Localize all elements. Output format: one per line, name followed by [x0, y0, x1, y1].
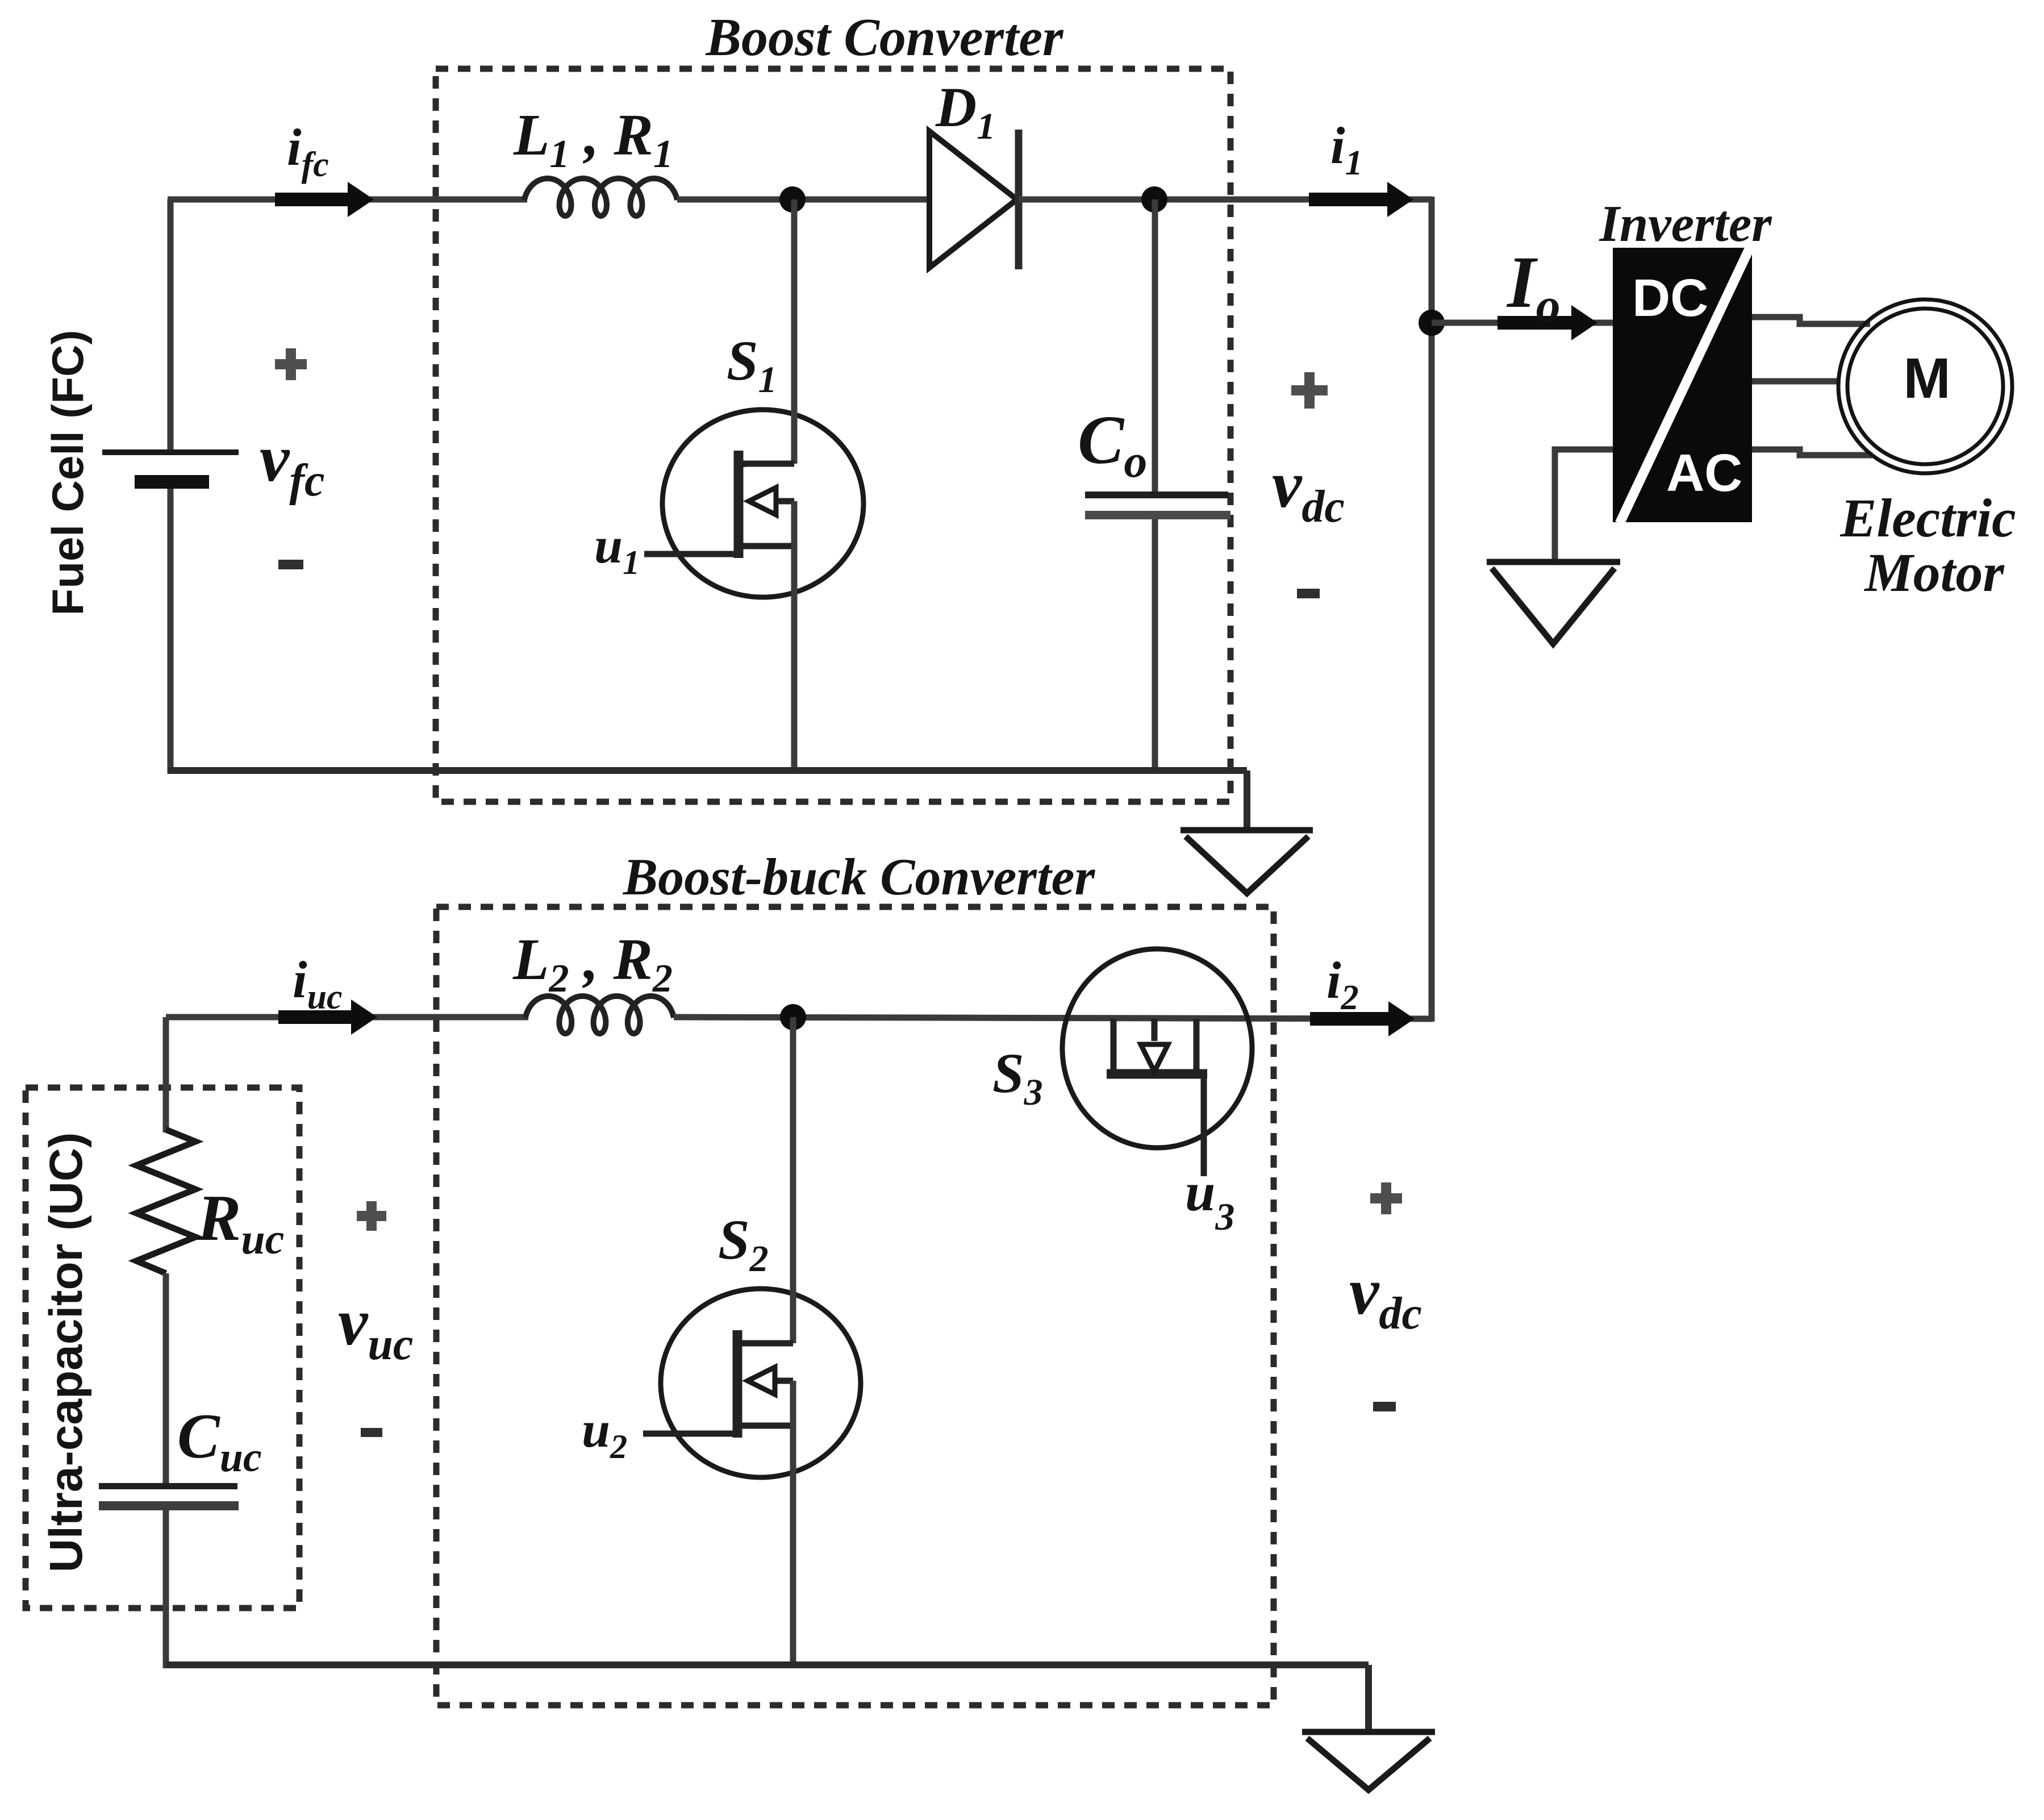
wire: Ruc to Cuc — [163, 1273, 169, 1488]
wire: S2 source down to bottom rail — [790, 1381, 796, 1668]
label: + (vdc bottom) — [1370, 1182, 1402, 1214]
wire: Io feed to inverter — [1432, 320, 1615, 326]
svg-text:L2 , R2: L2 , R2 — [512, 927, 673, 1001]
wire: bottom rail of fuel-cell loop — [168, 767, 1247, 774]
wire: motor phase c — [1752, 449, 1872, 455]
wire: iuc rail from UC to inductor L2 — [166, 1014, 528, 1021]
arrow: i1 current — [1309, 182, 1413, 217]
svg-text:Electric: Electric — [1839, 488, 2016, 548]
wire: S1 drain from node down — [791, 199, 798, 464]
arrow: Io current — [1497, 305, 1597, 340]
label: + (vfc) — [275, 348, 307, 380]
wire: Cuc bottom lead — [163, 1510, 169, 1668]
svg-text:Inverter: Inverter — [1599, 195, 1772, 252]
wire: S2 drain from node down — [790, 1017, 796, 1343]
wire: S1 source down to bottom rail — [791, 501, 798, 774]
inductor L2,R2 — [525, 996, 674, 1034]
arrow: iuc current — [278, 999, 377, 1035]
resistor Ruc — [136, 1130, 195, 1273]
wire: fuel cell top lead (left vertical upper) — [168, 199, 174, 452]
svg-text:DC: DC — [1632, 268, 1708, 327]
wire: inverter ac-side ground lead — [1555, 449, 1613, 562]
dashed box: Boost-buck Converter — [436, 907, 1274, 1705]
wire: top rail from fuel cell to inductor L1 — [168, 197, 527, 203]
arrow: i2 current — [1310, 1001, 1415, 1036]
svg-text:AC: AC — [1666, 443, 1742, 502]
inductor L1,R1 — [524, 178, 677, 216]
wire: inductor L1 to diode D1 anode — [677, 197, 929, 203]
wire: Co top lead — [1152, 199, 1158, 497]
wire: UC top lead — [163, 1017, 169, 1132]
transistor S1 (MOSFET) — [662, 410, 864, 597]
wire: fuel cell bottom lead (left vertical lower) — [168, 489, 174, 774]
label: + (vdc top) — [1291, 372, 1328, 409]
svg-text:Fuel Cell (FC): Fuel Cell (FC) — [43, 330, 93, 616]
wire: diode D1 cathode to right corner — [1019, 197, 1432, 203]
label: - (vdc top) — [1297, 589, 1320, 598]
electric motor M — [1838, 299, 2012, 473]
wire: L2 to S3 (i2 rail) — [674, 1017, 1432, 1019]
ground (below boost converter) — [1180, 830, 1313, 893]
wire: right dc bus vertical — [1429, 197, 1435, 1022]
wire: motor phase a — [1752, 317, 1870, 324]
node: L1/S1 junction — [779, 186, 806, 213]
node: dc bus / Io junction — [1419, 310, 1445, 336]
dashed box: Ultra-capacitor (UC) — [26, 1088, 299, 1608]
fuel cell source vfc (battery symbol) — [102, 449, 239, 489]
arrow: ifc current — [275, 182, 374, 217]
svg-text:Boost-buck Converter: Boost-buck Converter — [623, 848, 1096, 906]
label: + (vuc) — [357, 1201, 386, 1231]
node: D1/Co junction — [1141, 186, 1167, 213]
svg-text:Boost Converter: Boost Converter — [705, 8, 1064, 67]
ground (bottom right) — [1302, 1732, 1435, 1790]
transistor S2 (MOSFET) — [661, 1289, 861, 1477]
transistor S3 (MOSFET) — [1062, 949, 1252, 1148]
wire: drop to mid ground — [1244, 771, 1250, 830]
wire: Co bottom lead — [1152, 519, 1158, 774]
dashed box: Boost Converter — [436, 69, 1230, 802]
label: - (vuc) — [361, 1428, 382, 1437]
svg-text:Motor: Motor — [1863, 542, 2005, 603]
wire: motor phase b — [1752, 378, 1838, 385]
diode D1 — [929, 130, 1019, 269]
ground (inverter) — [1487, 562, 1620, 644]
label: - (vfc) — [278, 560, 303, 569]
wire: drop to bottom ground — [1365, 1665, 1372, 1732]
label: - (vdc bottom) — [1373, 1402, 1396, 1411]
wire: bottom rail of UC loop — [166, 1661, 1369, 1668]
svg-text:Ultra-capacitor (UC): Ultra-capacitor (UC) — [40, 1132, 92, 1573]
svg-text:L1 , R1: L1 , R1 — [513, 102, 673, 176]
node: L2/S2 junction — [780, 1004, 806, 1030]
capacitor Cuc — [99, 1483, 239, 1510]
svg-text:M: M — [1903, 347, 1950, 410]
inverter block DC/AC — [1613, 247, 1752, 523]
